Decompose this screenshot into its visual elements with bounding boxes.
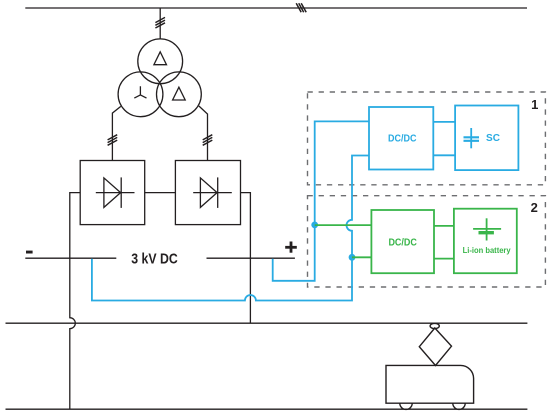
svg-text:DC/DC: DC/DC	[388, 134, 417, 145]
svg-text:3 kV DC: 3 kV DC	[131, 251, 178, 268]
svg-text:2: 2	[531, 200, 538, 215]
svg-text:Li-ion battery: Li-ion battery	[463, 246, 512, 255]
svg-text:1: 1	[531, 97, 538, 112]
svg-text:SC: SC	[486, 133, 500, 144]
svg-text:DC/DC: DC/DC	[388, 237, 417, 248]
